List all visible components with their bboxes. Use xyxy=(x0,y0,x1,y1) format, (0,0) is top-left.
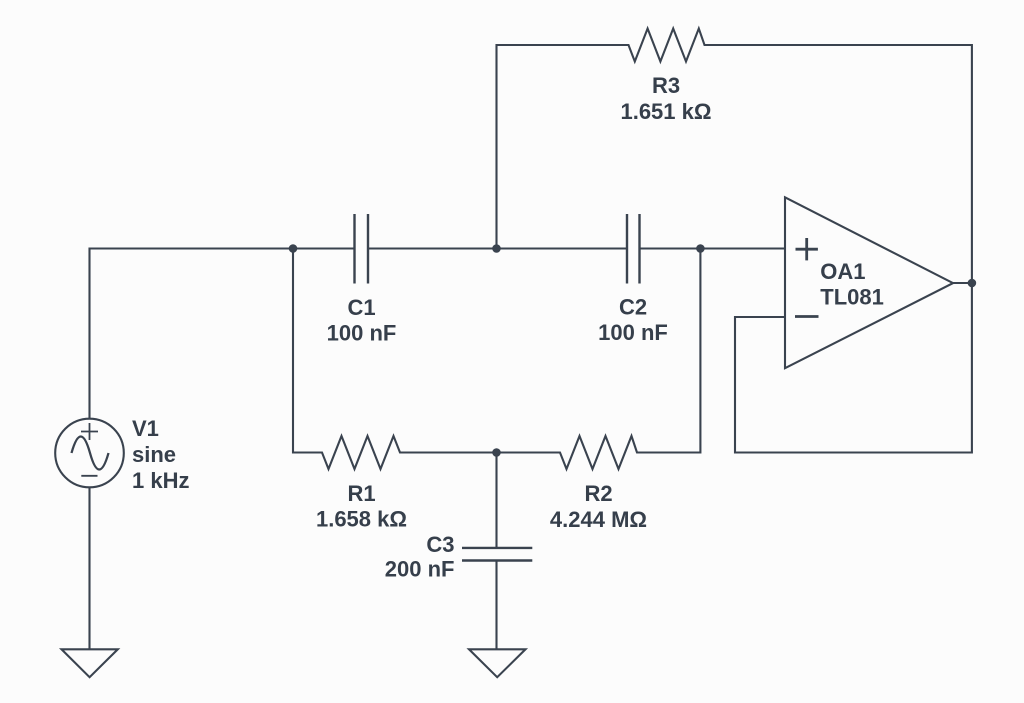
svg-text:sine: sine xyxy=(132,442,176,467)
svg-text:OA1: OA1 xyxy=(820,259,865,284)
svg-text:C3: C3 xyxy=(426,532,454,557)
svg-text:100 nF: 100 nF xyxy=(598,320,668,345)
svg-text:TL081: TL081 xyxy=(820,284,884,309)
svg-text:1 kHz: 1 kHz xyxy=(132,468,189,493)
svg-text:R3: R3 xyxy=(652,73,680,98)
svg-text:C1: C1 xyxy=(347,295,375,320)
svg-text:200 nF: 200 nF xyxy=(385,557,455,582)
svg-text:1.658 kΩ: 1.658 kΩ xyxy=(316,507,407,532)
svg-text:1.651 kΩ: 1.651 kΩ xyxy=(620,99,711,124)
svg-text:C2: C2 xyxy=(619,294,647,319)
svg-text:R2: R2 xyxy=(584,481,612,506)
svg-text:100 nF: 100 nF xyxy=(327,320,397,345)
svg-text:4.244 MΩ: 4.244 MΩ xyxy=(550,507,647,532)
svg-text:R1: R1 xyxy=(347,481,375,506)
svg-text:V1: V1 xyxy=(132,416,159,441)
